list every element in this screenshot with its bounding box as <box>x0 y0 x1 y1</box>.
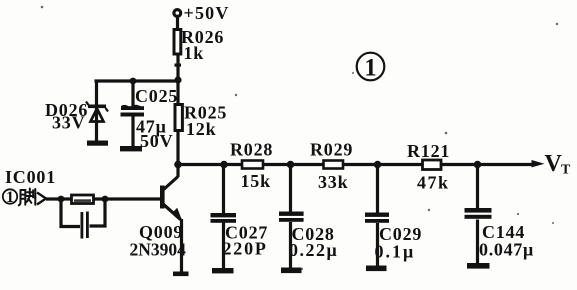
svg-text:V: V <box>545 151 563 177</box>
svg-text:1k: 1k <box>184 43 205 63</box>
svg-text:33V: 33V <box>52 113 85 133</box>
svg-text:1: 1 <box>6 189 14 206</box>
svg-text:0.1μ: 0.1μ <box>375 242 416 262</box>
svg-text:2N3904: 2N3904 <box>130 240 187 260</box>
svg-text:+50V: +50V <box>184 3 230 23</box>
svg-text:R121: R121 <box>407 141 450 161</box>
svg-text:0.047μ: 0.047μ <box>479 240 534 260</box>
svg-text:1: 1 <box>364 55 377 82</box>
svg-text:0.22μ: 0.22μ <box>289 240 338 260</box>
svg-text:T: T <box>561 163 571 178</box>
svg-text:R029: R029 <box>310 140 353 160</box>
svg-text:R028: R028 <box>230 140 273 160</box>
svg-text:12k: 12k <box>186 119 216 139</box>
svg-text:47k: 47k <box>417 173 450 193</box>
svg-text:50V: 50V <box>140 131 173 151</box>
svg-text:C025: C025 <box>135 86 178 106</box>
svg-text:33k: 33k <box>318 172 348 192</box>
svg-text:IC001: IC001 <box>5 167 56 187</box>
svg-text:220P: 220P <box>223 239 268 259</box>
svg-text:15k: 15k <box>241 171 271 191</box>
